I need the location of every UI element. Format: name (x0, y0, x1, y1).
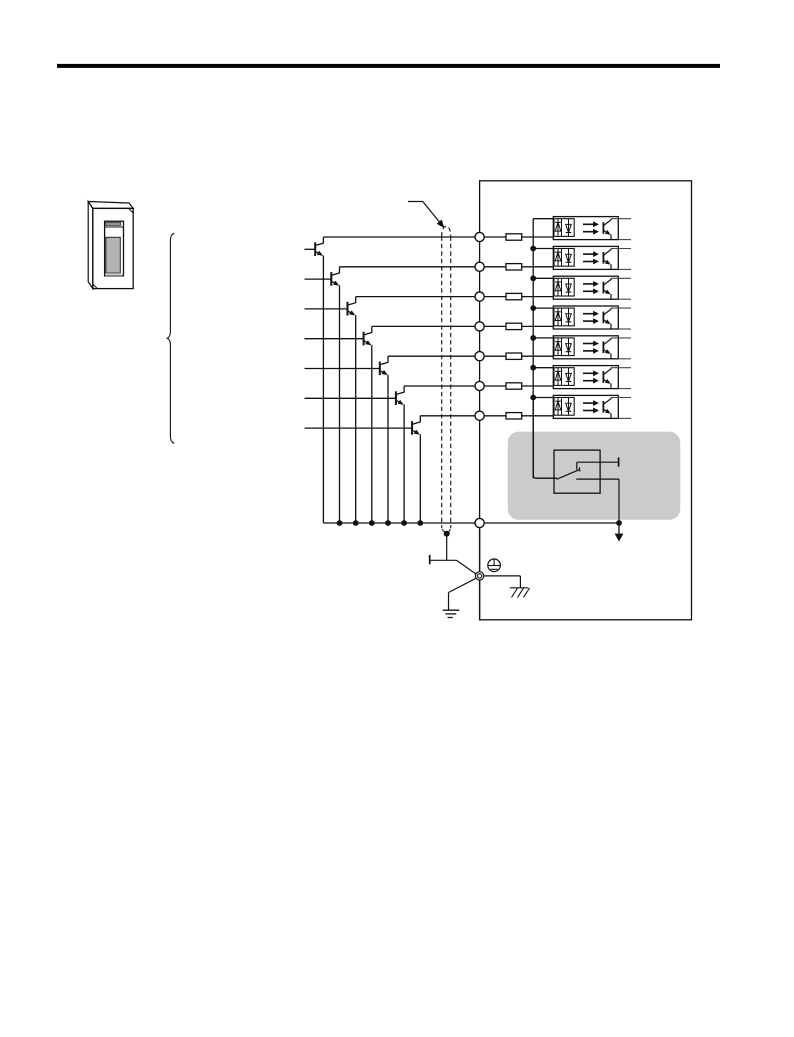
terminal 1 (475, 232, 484, 241)
terminal 4 (475, 322, 484, 331)
wire input row 2 (340, 266, 480, 268)
wire terminal 1 to resistor (480, 236, 506, 238)
junction on emitter bus 4 (385, 520, 391, 526)
shield callout leader arrow (408, 202, 444, 228)
optocoupler U6 (553, 366, 631, 389)
optocoupler U3 (553, 276, 631, 299)
wire common terminal to internal common (480, 522, 619, 524)
wire resistor R6 to optocoupler (522, 385, 554, 387)
transistor Q6 (305, 386, 405, 523)
junction on emitter bus 5 (401, 520, 407, 526)
brace grouping digital inputs (167, 233, 174, 443)
common emitter bus wire (323, 522, 479, 524)
transistor Q1 (305, 237, 324, 523)
chassis ground (510, 588, 530, 598)
terminal 2 (475, 262, 484, 271)
transistor Q4 (305, 326, 372, 523)
resistor R2 (506, 264, 522, 270)
internal common arrow (615, 526, 623, 542)
wire input row 5 (388, 355, 480, 357)
sink-source selector switch S1 (533, 398, 619, 494)
wire drain bar (430, 559, 457, 561)
wire resistor R2 to optocoupler (522, 266, 554, 268)
terminal 8 (common) (475, 518, 484, 527)
wire terminal 4 to resistor (480, 325, 506, 327)
resistor R3 (506, 293, 522, 299)
drive unit icon (inverter) (88, 202, 133, 289)
drain terminal bar (429, 555, 431, 564)
sink-source select region (shaded) (508, 432, 681, 520)
optocoupler U2 (553, 246, 631, 269)
shielded cable boundary (dashed) (442, 226, 451, 528)
wire input row 1 (323, 236, 479, 238)
resistor R5 (506, 353, 522, 359)
optocoupler U7 (553, 395, 631, 418)
drive enclosure outline (480, 181, 692, 620)
wire terminal 2 to resistor (480, 266, 506, 268)
optocoupler U1 (553, 217, 631, 240)
terminal 3 (475, 292, 484, 301)
wire switch to common junction (618, 479, 620, 523)
wire resistor R7 to optocoupler (522, 415, 554, 417)
wire PE to earth ground (449, 578, 477, 610)
resistor R1 (506, 234, 522, 240)
resistor R7 (506, 413, 522, 419)
junction on common wire 1 (530, 246, 536, 252)
junction on emitter bus 1 (337, 520, 343, 526)
wire terminal 5 to resistor (480, 355, 506, 357)
transistor Q5 (305, 356, 389, 523)
junction on emitter bus 2 (353, 520, 359, 526)
terminal 6 (475, 381, 484, 390)
wire input row 6 (404, 385, 480, 387)
junction on common wire 4 (530, 335, 536, 341)
page header rule (57, 64, 720, 68)
wire resistor R5 to optocoupler (522, 355, 554, 357)
wire input row 7 (420, 415, 479, 417)
wire PE to chassis ground (484, 576, 521, 588)
junction on common wire 6 (530, 395, 536, 401)
optocoupler common wire (533, 219, 554, 479)
junction on emitter bus 6 (417, 520, 423, 526)
wire terminal 6 to resistor (480, 385, 506, 387)
earth ground (443, 610, 460, 617)
junction on emitter bus 3 (369, 520, 375, 526)
optocoupler U5 (553, 336, 631, 359)
protective earth symbol (488, 559, 501, 572)
wire resistor R1 to optocoupler (522, 236, 554, 238)
resistor R6 (506, 383, 522, 389)
optocoupler U4 (553, 306, 631, 329)
terminal 5 (475, 352, 484, 361)
junction on common wire 5 (530, 365, 536, 371)
transistor Q2 (305, 267, 340, 523)
transistor Q7 (305, 416, 421, 523)
wire resistor R4 to optocoupler (522, 325, 554, 327)
wire input row 4 (372, 325, 480, 327)
cable shield drain (442, 529, 450, 560)
wire resistor R3 to optocoupler (522, 296, 554, 298)
wire terminal 7 to resistor (480, 415, 506, 417)
junction internal common (616, 520, 622, 526)
resistor R4 (506, 323, 522, 329)
contact terminal bar (618, 457, 620, 466)
PE terminal (double circle) (475, 572, 483, 580)
wire input row 3 (356, 296, 480, 298)
junction on common wire 2 (530, 275, 536, 281)
wire terminal 3 to resistor (480, 296, 506, 298)
junction on common wire 3 (530, 305, 536, 311)
terminal 7 (475, 411, 484, 420)
wire drain to PE terminal (456, 560, 476, 574)
transistor Q3 (305, 297, 356, 523)
wire terminal8 to PE terminal (479, 528, 481, 620)
